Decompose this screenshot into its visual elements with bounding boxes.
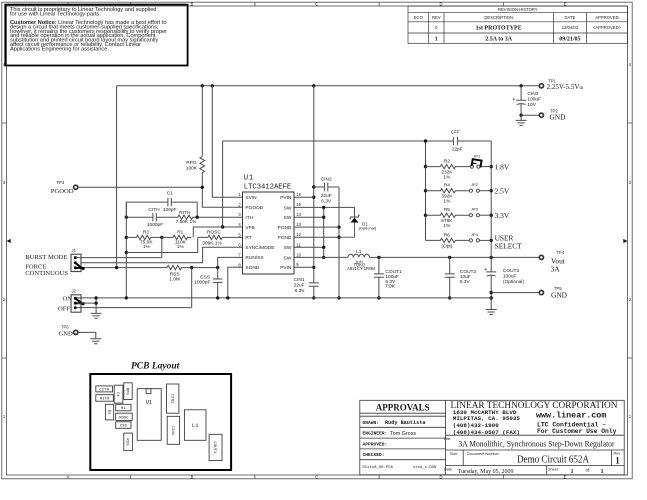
resistor RSS 1.0M — [167, 265, 218, 282]
wire R1 to VFB — [193, 227, 222, 237]
wire pin11 stub — [294, 246, 324, 248]
svg-text:ROSC: ROSC — [207, 230, 221, 236]
svg-text:U1: U1 — [244, 175, 254, 183]
junction VFB/CFF/divider — [424, 139, 427, 142]
svg-text:14: 14 — [296, 212, 301, 217]
jumper JP4 — [469, 232, 491, 242]
capacitor C1 100pF (parallel branch) — [126, 191, 197, 218]
resistor RPG 100K — [186, 86, 205, 188]
svg-text:R1: R1 — [121, 407, 126, 411]
svg-text:2.5A to 3A: 2.5A to 3A — [485, 37, 513, 43]
svg-text:REV: REV — [432, 15, 441, 20]
svg-text:C: C — [315, 2, 318, 7]
junction PGND/pin12 — [337, 236, 340, 239]
junctions right rail — [490, 165, 493, 168]
svg-text:1: 1 — [571, 469, 574, 475]
svg-text:<APPROVED>: <APPROVED> — [593, 25, 622, 30]
svg-text:DRAWN:: DRAWN: — [363, 420, 380, 426]
junction COUT1/GND — [377, 296, 380, 299]
jumper JP1 with shunt — [470, 154, 491, 169]
wire BURST vertical — [161, 237, 163, 257]
capacitor CIN1 22uF 6.3V — [294, 277, 319, 294]
svg-text:Sheet: Sheet — [548, 467, 559, 471]
svg-text:ECO: ECO — [414, 15, 424, 20]
svg-text:100K: 100K — [186, 165, 198, 171]
capacitor COUT2 10uF 6.3V — [445, 257, 477, 298]
svg-text:2.5V: 2.5V — [495, 187, 510, 196]
svg-text:SW: SW — [284, 205, 292, 211]
wire pin16 stub — [294, 196, 314, 198]
svg-text:SW: SW — [284, 245, 292, 251]
U1 right pin numbers 16-9 — [296, 192, 301, 267]
svg-text:Document Number: Document Number — [467, 452, 500, 456]
svg-text:(Optional): (Optional) — [503, 279, 524, 285]
junction PGND rail at GND rail — [337, 296, 340, 299]
wire TP6 to ground — [79, 332, 96, 338]
wire pin14 stub — [294, 216, 324, 218]
junction ITH row / C1 right leg — [196, 216, 199, 219]
svg-text:CIN3: CIN3 — [527, 91, 538, 97]
junction SW/pin14 — [322, 216, 325, 219]
testpoint TP6 — [59, 325, 78, 338]
svg-text:PGOOD: PGOOD — [245, 205, 263, 211]
svg-text:2.25V-5.5Vin: 2.25V-5.5Vin — [547, 83, 584, 91]
junction VOUT/COUT1 — [377, 256, 380, 259]
testpoint TP3 — [51, 180, 78, 195]
wire PVIN vertical rail — [313, 86, 315, 298]
svg-text:7.50K 1%: 7.50K 1% — [176, 219, 198, 225]
svg-text:1: 1 — [435, 37, 438, 43]
svg-text:6.3V: 6.3V — [295, 288, 306, 294]
svg-text:1st PROTOTYPE: 1st PROTOTYPE — [476, 26, 522, 32]
svg-text:CFF: CFF — [451, 129, 460, 135]
svg-text:6.3V: 6.3V — [321, 198, 332, 204]
svg-text:11: 11 — [296, 242, 301, 247]
svg-text:SW: SW — [284, 215, 292, 221]
svg-text:CIN1: CIN1 — [170, 425, 174, 435]
svg-text:R6: R6 — [444, 232, 450, 238]
svg-text:1000pF: 1000pF — [147, 222, 163, 228]
svg-text:PVIN: PVIN — [280, 265, 292, 271]
svg-text:TP6: TP6 — [61, 325, 69, 330]
svg-text:xxxA_x.DSN: xxxA_x.DSN — [413, 466, 437, 470]
svg-text:Applications Engineering for a: Applications Engineering for assistance. — [10, 46, 109, 52]
svg-text:U1: U1 — [146, 398, 153, 405]
svg-text:R4: R4 — [444, 183, 450, 189]
svg-text:REVISION HISTORY: REVISION HISTORY — [498, 7, 538, 12]
svg-text:1%: 1% — [443, 199, 451, 205]
svg-text:GND: GND — [549, 112, 566, 121]
svg-text:B: B — [191, 2, 194, 7]
resistor R1 110K 1% — [162, 229, 191, 250]
resistor ROSC 309K 1% — [198, 230, 243, 247]
svg-text:APPROVED: APPROVED — [595, 15, 618, 20]
U1 left pin numbers 1-8 — [238, 192, 241, 267]
op-amp U1 LTC3412AEFE (IC body) — [243, 175, 295, 274]
junction PVIN/CIN2 row — [312, 185, 315, 188]
svg-text:CIN2: CIN2 — [169, 394, 173, 404]
wire pin9 stub — [294, 266, 314, 268]
svg-text:1%: 1% — [443, 174, 451, 180]
svg-text:3A Monolithic, Synchronous Ste: 3A Monolithic, Synchronous Step-Down Reg… — [459, 440, 615, 449]
svg-text:PGND: PGND — [278, 225, 292, 231]
svg-text:10V: 10V — [527, 102, 536, 108]
U1 left pin names — [245, 195, 274, 271]
junction VOUT/feedback rail — [490, 256, 493, 259]
svg-text:R2: R2 — [444, 159, 450, 165]
junction SGND leg/GND rail — [226, 296, 229, 299]
svg-text:MILPITAS, CA. 95035: MILPITAS, CA. 95035 — [453, 415, 521, 422]
junction CSS/GND rail — [216, 296, 219, 299]
svg-text:Tuesday, May 05, 2009: Tuesday, May 05, 2009 — [458, 468, 515, 475]
svg-text:CSS: CSS — [120, 425, 128, 429]
svg-text:D: D — [439, 475, 442, 480]
svg-text:J2: J2 — [72, 289, 77, 294]
svg-text:RPG: RPG — [186, 160, 197, 166]
svg-text:RSS: RSS — [125, 438, 129, 446]
wire SGND pin8 down leg — [228, 267, 243, 298]
svg-text:C1: C1 — [167, 191, 173, 197]
svg-text:JP3: JP3 — [471, 207, 479, 212]
svg-text:PGOOD: PGOOD — [51, 188, 74, 195]
junction on VIN rail at RPG — [201, 84, 204, 87]
wire SGND jog to ROSC — [126, 237, 197, 252]
svg-text:ITH: ITH — [245, 215, 253, 221]
svg-text:L1: L1 — [192, 422, 199, 429]
svg-text:3A: 3A — [551, 264, 561, 273]
svg-text:6.3V: 6.3V — [460, 279, 471, 285]
svg-text:Rudy Bautista: Rudy Bautista — [385, 420, 425, 426]
junction left rail / jog — [125, 251, 128, 254]
wire pin13 stub — [294, 226, 339, 228]
svg-text:R3: R3 — [106, 410, 110, 415]
svg-text:For Customer Use Only: For Customer Use Only — [537, 428, 617, 435]
svg-text:1%: 1% — [443, 223, 451, 229]
svg-text:ON: ON — [63, 296, 73, 303]
junction VOUT/COUT2 — [448, 256, 451, 259]
inductor L1 1uH TOKO A921CY-1R0M — [347, 249, 375, 271]
junction SW/pin15 — [322, 206, 325, 209]
svg-text:APPROVALS: APPROVALS — [376, 403, 430, 413]
svg-text:JP4: JP4 — [471, 232, 479, 237]
svg-text:GND: GND — [551, 290, 568, 299]
svg-text:309K 1%: 309K 1% — [202, 241, 222, 247]
svg-text:CIN1: CIN1 — [294, 277, 305, 283]
testpoint TP4 — [539, 250, 565, 273]
svg-text:1: 1 — [615, 455, 620, 465]
svg-text:RITH: RITH — [179, 210, 191, 216]
label FORCE CONTINUOUS — [25, 264, 68, 277]
svg-text:SYNC/MODE: SYNC/MODE — [245, 245, 274, 251]
svg-text:L1: L1 — [356, 249, 362, 255]
svg-text:100uF: 100uF — [527, 97, 541, 103]
ground at right rail — [486, 310, 497, 315]
svg-text:1: 1 — [601, 469, 604, 475]
svg-text:09/21/05: 09/21/05 — [559, 37, 580, 43]
testpoint TP5 — [539, 286, 567, 300]
capacitor CSS 1000pF — [194, 268, 222, 298]
junction RSS row / J2-OFF vertical — [190, 266, 193, 269]
svg-text:Title: Title — [444, 437, 451, 441]
PCB Layout inset — [90, 362, 231, 470]
svg-text:SGND: SGND — [245, 265, 259, 271]
svg-text:BURST MODE: BURST MODE — [25, 254, 67, 261]
svg-text:12/04/03: 12/04/03 — [562, 25, 579, 30]
U1 right pin names — [278, 195, 292, 271]
connector J2 (ON/OFF) — [71, 289, 84, 313]
wire SYNC/MODE to J1 pin2 — [81, 247, 243, 262]
svg-text:ROSC: ROSC — [119, 416, 129, 420]
wire feedback right rail (VOUT) — [490, 141, 492, 257]
svg-text:PGND: PGND — [278, 235, 292, 241]
svg-text:SELECT: SELECT — [495, 241, 523, 250]
svg-text:TP3: TP3 — [57, 180, 65, 185]
svg-text:COUT1: COUT1 — [212, 441, 216, 454]
wire RUN/SS down leg — [218, 257, 243, 267]
svg-text:ENGINEER:: ENGINEER: — [363, 431, 388, 437]
svg-text:A: A — [67, 475, 70, 480]
svg-text:of: of — [586, 469, 591, 474]
wire to TP2 — [521, 114, 539, 116]
wire J2 pin2 row — [77, 302, 96, 304]
svg-text:1%: 1% — [143, 244, 151, 250]
label net USER SELECT — [495, 234, 523, 251]
svg-text:DESCRIPTION: DESCRIPTION — [484, 15, 513, 20]
junction R3/R1 — [160, 236, 163, 239]
junction GND rail right end — [490, 296, 493, 299]
svg-text:OFF: OFF — [58, 305, 70, 312]
svg-text:22uF: 22uF — [294, 283, 305, 289]
junction on VIN rail at SVIN — [211, 84, 214, 87]
svg-text:SVIN: SVIN — [245, 195, 257, 201]
junction SW/pin10 — [322, 256, 325, 259]
svg-text:B: B — [191, 475, 194, 480]
svg-text:www.linear.com: www.linear.com — [536, 411, 606, 421]
svg-text:22uF: 22uF — [321, 193, 332, 199]
svg-text:JP2: JP2 — [471, 182, 479, 187]
capacitor CITH 1000pF — [126, 207, 178, 228]
wire feedback left rail — [425, 141, 427, 240]
svg-text:Date:: Date: — [444, 467, 453, 471]
svg-text:Demo Circuit 652A: Demo Circuit 652A — [517, 454, 590, 465]
svg-text:22pF: 22pF — [452, 147, 463, 153]
junction J2 pin2/vertical — [94, 301, 97, 304]
wire SW vertical rail — [323, 207, 325, 257]
svg-text:SW: SW — [284, 255, 292, 261]
svg-text:E: E — [564, 475, 567, 480]
svg-text:DCxxxA_00.PCB: DCxxxA_00.PCB — [363, 466, 394, 470]
ground below J2 — [91, 313, 102, 318]
junction PGND/pin13 — [337, 225, 340, 228]
wire J1 pin1 row — [77, 257, 162, 259]
svg-text:LTC3412AEFE: LTC3412AEFE — [244, 183, 291, 191]
junction PVIN/pin9 — [312, 266, 315, 269]
svg-text:CITH: CITH — [148, 207, 160, 213]
svg-text:16: 16 — [296, 192, 301, 197]
svg-text:100pF: 100pF — [163, 207, 177, 213]
junction RSS row / RUN leg — [216, 266, 219, 269]
svg-text:CITH: CITH — [99, 388, 109, 392]
wire pin15 SW row to D1 — [294, 207, 355, 217]
svg-text:RUN/SS: RUN/SS — [245, 255, 263, 261]
svg-text:10: 10 — [296, 252, 301, 257]
capacitor CFF 22pF — [426, 129, 492, 152]
junction COUT2/GND — [448, 296, 451, 299]
svg-text:100uF: 100uF — [503, 273, 517, 279]
wire VOUT row — [370, 256, 539, 258]
wire J2-OFF vertical — [191, 268, 193, 308]
svg-text:(Opt): (Opt) — [441, 244, 452, 250]
svg-text:Tom Gross: Tom Gross — [390, 431, 416, 437]
wire pin12 stub — [294, 236, 339, 238]
svg-text:RPG: RPG — [125, 388, 129, 396]
junction RSS row / VIN stub — [115, 266, 118, 269]
wire SVIN to pin 1 — [212, 86, 242, 197]
svg-text:R3: R3 — [143, 229, 149, 235]
junctions left rail — [424, 165, 427, 168]
svg-text:JP1: JP1 — [473, 154, 481, 159]
svg-text:12: 12 — [296, 232, 301, 237]
jumper JP3 — [469, 207, 491, 217]
wire VFB net horizontal — [223, 141, 426, 227]
svg-text:RITH: RITH — [100, 397, 110, 401]
svg-text:R5: R5 — [444, 207, 450, 213]
wire to TP5 — [491, 292, 538, 294]
wire PGND rail — [338, 187, 340, 298]
svg-text:APPROVED:: APPROVED: — [363, 441, 388, 447]
junction on VIN rail at PVIN — [312, 84, 315, 87]
junction at CIN3/TP2 — [519, 114, 522, 117]
svg-text:A921CY-1R0M: A921CY-1R0M — [347, 266, 375, 271]
junction on VIN rail at CIN3 — [519, 84, 522, 87]
svg-text:C1: C1 — [115, 392, 119, 397]
testpoint TP2 — [539, 108, 566, 121]
junction left rail / GND rail — [125, 296, 128, 299]
wire PGOOD net — [79, 187, 243, 207]
svg-text:R1: R1 — [177, 229, 183, 235]
svg-text:J1: J1 — [72, 248, 77, 253]
svg-text:CHECKED:: CHECKED: — [363, 452, 385, 458]
diode D1 (Optional) — [339, 215, 377, 237]
testpoint TP1 — [539, 78, 584, 91]
svg-text:1000pF: 1000pF — [194, 280, 210, 286]
svg-text:RT: RT — [245, 235, 251, 241]
wire GND rail — [77, 297, 491, 299]
connector J1 (BURST MODE / FORCE CONTINUOUS) — [71, 248, 84, 272]
svg-text:15: 15 — [296, 202, 301, 207]
svg-text:PCB Layout: PCB Layout — [131, 362, 180, 372]
svg-text:COUT3: COUT3 — [503, 268, 520, 274]
svg-text:C: C — [315, 475, 318, 480]
svg-text:VFB: VFB — [245, 225, 254, 231]
jumper JP2 — [469, 182, 491, 192]
junction PVIN rail at GND rail — [312, 296, 315, 299]
svg-text:Size: Size — [450, 452, 457, 456]
svg-text:13: 13 — [296, 222, 301, 227]
resistor R6 (Opt) — [426, 232, 470, 249]
junction VOUT rail / TP5 row — [490, 291, 493, 294]
junction PVIN/pin16 — [312, 196, 315, 199]
title block — [360, 400, 624, 475]
svg-text:(408)434-0507 (FAX): (408)434-0507 (FAX) — [453, 429, 520, 436]
svg-text:CIN2: CIN2 — [321, 177, 332, 183]
resistor R4 392K 1% — [426, 183, 470, 205]
node VIN: top supply rail — [117, 86, 539, 268]
wire J2 ground vertical — [95, 298, 97, 314]
svg-text:for use with Linear Technology: for use with Linear Technology parts. — [10, 11, 101, 17]
wire SGND left rail — [125, 202, 127, 298]
svg-text:TP4: TP4 — [557, 250, 565, 255]
wire J2 pin3 row (OFF) — [77, 307, 192, 309]
resistor R3 75.0K 1% — [126, 229, 162, 250]
wire pin10 SW out row — [294, 256, 348, 258]
ground at TP6 — [90, 339, 101, 344]
svg-text:1%: 1% — [177, 244, 185, 250]
svg-text:TDK: TDK — [385, 284, 395, 290]
svg-text:CONTINUOUS: CONTINUOUS — [25, 270, 68, 277]
capacitor CIN3 — [513, 86, 541, 115]
junction PGOOD/RPG — [201, 186, 204, 189]
revision history table — [408, 6, 628, 43]
wire RSS row (J1 pin3) — [77, 267, 167, 269]
resistor R5 576K 1% — [426, 207, 470, 229]
junction ITH row / left rail — [125, 216, 128, 219]
junction VFB — [221, 225, 224, 228]
junction J2/GND rail — [94, 296, 97, 299]
ground below CIN3 — [516, 115, 527, 125]
junction SW/pin11 — [322, 246, 325, 249]
junction left rail / R3 — [125, 236, 128, 239]
capacitor CIN2 22uF 6.3V — [314, 177, 339, 205]
resistor R2 232K 1% — [426, 159, 471, 181]
notice box — [5, 5, 187, 66]
capacitor COUT3 100uF (Optional) — [484, 257, 524, 309]
svg-text:GND: GND — [59, 331, 74, 338]
capacitor COUT1 100uF 6.3V TDK — [374, 257, 402, 298]
svg-text:(Optional): (Optional) — [359, 226, 377, 231]
svg-text:1.0M: 1.0M — [169, 277, 180, 283]
svg-text:3.3V: 3.3V — [495, 211, 510, 220]
svg-text:PVIN: PVIN — [280, 195, 292, 201]
svg-text:DATE: DATE — [564, 15, 575, 20]
resistor RITH 7.50K 1% — [176, 210, 243, 225]
svg-text:1.8V: 1.8V — [495, 163, 510, 172]
